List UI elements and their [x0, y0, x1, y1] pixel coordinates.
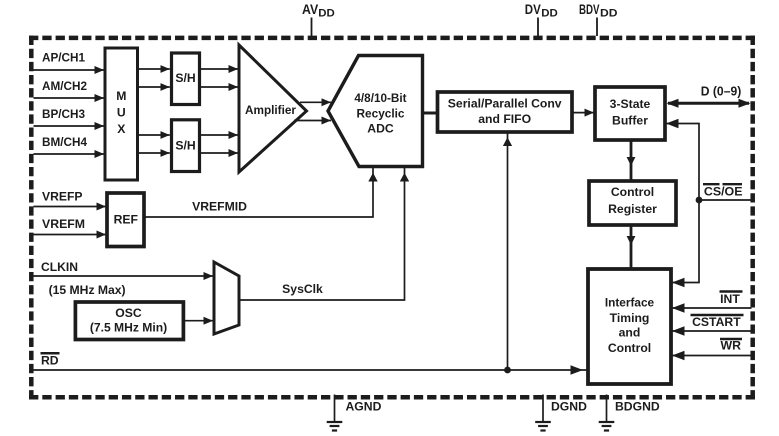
svg-text:S/H: S/H [175, 138, 195, 152]
block Control Register [589, 181, 676, 225]
svg-text:U: U [117, 106, 126, 120]
wire MUX to S/H2 (a) [138, 134, 170, 136]
wire Amplifier to ADC (b) [294, 120, 331, 122]
block S/H (upper) [172, 53, 200, 105]
svg-text:Control: Control [611, 185, 654, 199]
svg-text:Recyclic: Recyclic [357, 106, 405, 120]
node CS/OE junction [696, 197, 703, 204]
block 3-State Buffer [595, 87, 665, 140]
svg-text:SysClk: SysClk [282, 282, 323, 296]
wire MUX to S/H1 (a) [138, 68, 170, 70]
wire VREFM to REF [34, 234, 107, 236]
wire CS/OE to 3-State Buffer [666, 124, 699, 201]
block REF [107, 193, 144, 247]
svg-text:VREFP: VREFP [42, 190, 83, 204]
wire 3-State Buffer to Control Register [627, 140, 636, 181]
svg-text:AGND: AGND [346, 400, 382, 414]
block Interface Timing and Control [588, 269, 671, 384]
svg-text:AP/CH1: AP/CH1 [42, 50, 85, 64]
svg-text:Amplifier: Amplifier [245, 103, 296, 117]
input RD label [41, 353, 60, 367]
wire CS/OE from pin [699, 199, 752, 201]
ground AGND [327, 395, 382, 431]
block ADC (4/8/10-Bit Recyclic ADC) [328, 56, 423, 167]
svg-text:3-State: 3-State [610, 97, 651, 111]
block MUX [105, 48, 138, 180]
chip boundary (dashed) [29, 36, 755, 400]
port CSTART label [691, 315, 744, 329]
svg-text:4/8/10-Bit: 4/8/10-Bit [354, 91, 406, 105]
svg-text:DD: DD [600, 7, 618, 19]
svg-text:DV: DV [525, 2, 541, 17]
svg-text:VREFMID: VREFMID [192, 200, 247, 214]
svg-text:BDV: BDV [579, 2, 600, 17]
svg-text:DGND: DGND [551, 400, 587, 414]
svg-text:REF: REF [114, 213, 138, 227]
svg-text:DD: DD [541, 7, 558, 19]
svg-text:D (0–9): D (0–9) [701, 84, 742, 99]
wire ADC to Serial/Parallel Conv [424, 112, 438, 115]
wire Serial/Parallel to 3-State Buffer [572, 112, 594, 114]
svg-text:CSTART: CSTART [692, 315, 741, 329]
ground BDGND [599, 395, 660, 431]
node RD junction [504, 367, 511, 374]
svg-text:AV: AV [302, 2, 318, 17]
wire Control Register to Interface [627, 225, 636, 269]
svg-text:(15 MHz Max): (15 MHz Max) [49, 283, 126, 297]
svg-text:ADC: ADC [367, 122, 394, 136]
port WR label [720, 339, 742, 353]
wire WR to Interface [672, 355, 752, 357]
svg-text:Interface: Interface [605, 296, 655, 310]
svg-text:X: X [117, 122, 126, 136]
svg-text:M: M [116, 89, 126, 103]
block Serial/Parallel Conv and FIFO [438, 92, 573, 132]
wire S/H1 to Amplifier (b) [201, 86, 238, 88]
svg-text:and FIFO: and FIFO [478, 112, 531, 126]
wire RD junction to Serial/Parallel FIFO [507, 133, 509, 370]
svg-text:BP/CH3: BP/CH3 [42, 107, 85, 121]
wire MUX to S/H1 (b) [138, 86, 170, 88]
svg-text:Control: Control [608, 341, 651, 355]
svg-text:(7.5 MHz Min): (7.5 MHz Min) [90, 320, 167, 334]
svg-text:BDGND: BDGND [615, 400, 660, 414]
wire MUX to S/H2 (b) [138, 152, 170, 154]
block S/H (lower) [172, 120, 200, 172]
power pin DVDD [525, 2, 558, 36]
wire S/H1 to Amplifier (a) [201, 68, 238, 70]
svg-text:CLKIN: CLKIN [41, 260, 78, 274]
svg-text:CS/OE: CS/OE [704, 184, 743, 198]
wire VREFMID to ADC [144, 168, 373, 217]
wire VREFP to REF [34, 206, 107, 208]
wire Amplifier to ADC (a) [300, 101, 331, 103]
ground DGND [535, 395, 587, 431]
port CS/OE label [703, 184, 743, 198]
block OSC (7.5 MHz Min) [75, 302, 183, 340]
svg-text:OSC: OSC [115, 306, 142, 320]
svg-text:VREFM: VREFM [42, 217, 85, 231]
wire CS/OE vertical to Interface [672, 200, 699, 283]
port INT label [720, 292, 743, 307]
svg-text:INT: INT [720, 292, 740, 306]
wire S/H2 to Amplifier (a) [201, 134, 238, 136]
amplifier [239, 45, 307, 172]
power pin AVDD [302, 2, 335, 36]
svg-text:DD: DD [318, 7, 335, 19]
svg-text:S/H: S/H [175, 71, 195, 85]
svg-text:AM/CH2: AM/CH2 [42, 79, 87, 93]
wire INT to Interface [672, 307, 752, 309]
wire AM/CH2 to MUX [34, 97, 105, 99]
svg-text:Serial/Parallel Conv: Serial/Parallel Conv [448, 97, 562, 111]
svg-text:and: and [619, 326, 641, 340]
wire D bus (bidirectional) [668, 102, 749, 105]
wire OSC to clock mux [185, 320, 213, 322]
wire CLKIN to clock mux [34, 275, 214, 277]
svg-text:BM/CH4: BM/CH4 [42, 135, 87, 149]
wire BP/CH3 to MUX [34, 125, 105, 127]
wire S/H2 to Amplifier (b) [201, 152, 238, 154]
svg-text:Register: Register [608, 202, 657, 216]
wire SysClk to ADC [239, 168, 405, 300]
svg-text:Timing: Timing [610, 311, 650, 325]
wire BM/CH4 to MUX [34, 153, 105, 155]
wire AP/CH1 to MUX [34, 69, 105, 71]
svg-text:RD: RD [41, 354, 59, 368]
clock mux [214, 262, 239, 334]
wire RD to Interface [34, 369, 587, 371]
wire CSTART to Interface [672, 330, 752, 332]
power pin BDVDD [579, 2, 618, 36]
svg-text:Buffer: Buffer [612, 113, 648, 127]
svg-text:WR: WR [721, 339, 742, 353]
